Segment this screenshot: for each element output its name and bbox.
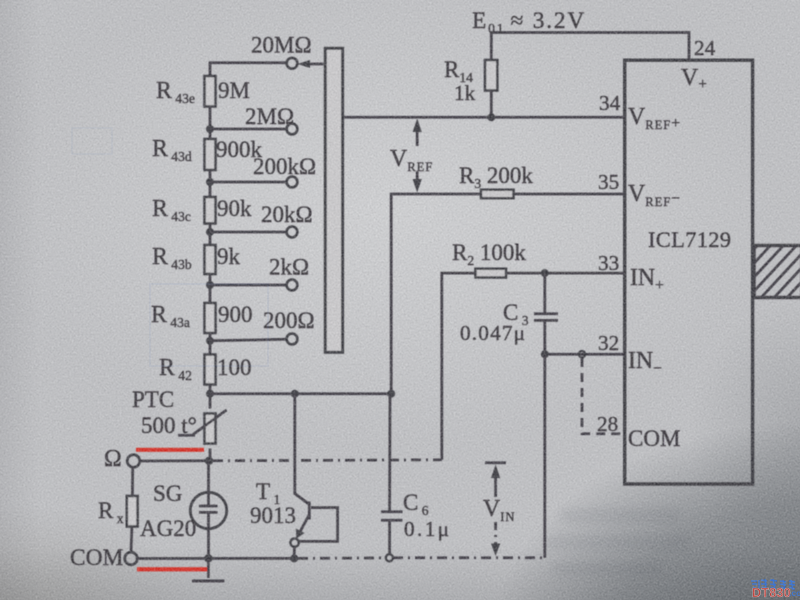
wire VREF- line (corner to pin 35) (391, 194, 625, 394)
wire tap 200k (210, 181, 287, 184)
switch contact 20k (287, 227, 298, 238)
wire dashed link pin32 node to pin 28 COM (582, 358, 625, 434)
node IN- junction (541, 350, 549, 358)
annotation VIN arrow lower dashed (491, 522, 500, 556)
wire VIN baseline dash-dot to IN+ vertical (393, 556, 545, 559)
transistor T1 (290, 394, 337, 556)
switch contact 2k (287, 280, 298, 291)
wire COM line dash-dot to C6 (298, 557, 385, 560)
resistor R43c (205, 197, 216, 224)
switch contact 200k (287, 177, 298, 188)
node tap 200 junction (206, 337, 214, 345)
resistor R43a (205, 303, 216, 333)
annotation red mark lower (137, 567, 210, 571)
resistor R43b (205, 245, 216, 274)
node tap 2k junction (206, 281, 214, 289)
wire R43a to R42 (209, 333, 212, 355)
resistor R42 (205, 355, 216, 385)
annotation VREF arrows (413, 119, 422, 193)
resistor R43e (205, 76, 216, 107)
capacitor C6 (381, 394, 403, 555)
IC U1 ICL7129 outline (625, 60, 753, 484)
node T1 emitter on COM line (290, 554, 298, 562)
switch contact 20M (287, 58, 298, 69)
node PTC / SG junction (205, 457, 213, 465)
switch bus bar (325, 48, 342, 352)
wire E01 top rail to pin 24 (491, 33, 689, 61)
wire COM line solid (137, 557, 296, 560)
wire tap 200 (210, 339, 287, 341)
wire ohm line dash-dot to IN+ branch (213, 460, 442, 461)
resistor R2 (476, 269, 507, 278)
wire IN- line to pin 32 (545, 353, 625, 356)
switch contact 2M (287, 124, 298, 135)
wire R43b to R43a (209, 274, 212, 303)
terminal COM (125, 552, 138, 565)
resistor R43d (205, 139, 216, 170)
node C6 bottom junction circle (386, 554, 393, 561)
node T1 collector junction (291, 390, 299, 398)
annotation red mark upper (136, 448, 204, 452)
resistor Rx (127, 467, 138, 553)
switch wiper arrow to 20M contact (298, 60, 324, 68)
wire tap 20k (210, 231, 287, 234)
node IN+ / C3 junction (541, 269, 549, 277)
node SG bottom junction (204, 554, 212, 562)
wire tap 2M (210, 128, 287, 131)
wire tap 2k (210, 284, 287, 287)
wire PTC to ohm line (209, 449, 212, 461)
wire R43c to R43b (209, 224, 212, 246)
node R14 bottom junction (487, 113, 495, 121)
node tap 20k junction (206, 228, 214, 236)
ground (192, 558, 225, 580)
wire R42 to PTC (209, 385, 212, 409)
wire ladder top to 20M contact (210, 63, 287, 76)
node dashed tap small circle (579, 351, 585, 357)
capacitor C3 (534, 273, 558, 354)
wire VREF+ line (bus to pin 34) (343, 116, 625, 119)
wire V- net horizontal (210, 392, 391, 395)
wire R43d to R43c (209, 170, 212, 197)
resistor R3 (481, 190, 514, 199)
switch contact 200 (287, 334, 298, 345)
wire R43e to R43d (209, 107, 212, 140)
wire IN+ line (corner down branch to pin 33) (442, 273, 625, 460)
thermistor PTC (178, 410, 227, 444)
node V- net junction at ladder bottom (206, 390, 214, 398)
node R3/C6 branch junction (387, 390, 395, 398)
node tap 200k junction (206, 178, 214, 186)
wire ohm terminal to PTC node (139, 459, 210, 462)
surge arrester SG (190, 461, 226, 559)
connector hatched block on IC right edge (705, 246, 800, 303)
annotation VIN arrow upper (491, 465, 500, 498)
resistor R14 (485, 60, 497, 117)
annotation VIN reference bar (485, 461, 506, 464)
terminal ohm (127, 455, 140, 468)
wire C3/IN+ vertical down to VIN baseline (543, 354, 546, 558)
node tap 2M junction (206, 125, 214, 133)
